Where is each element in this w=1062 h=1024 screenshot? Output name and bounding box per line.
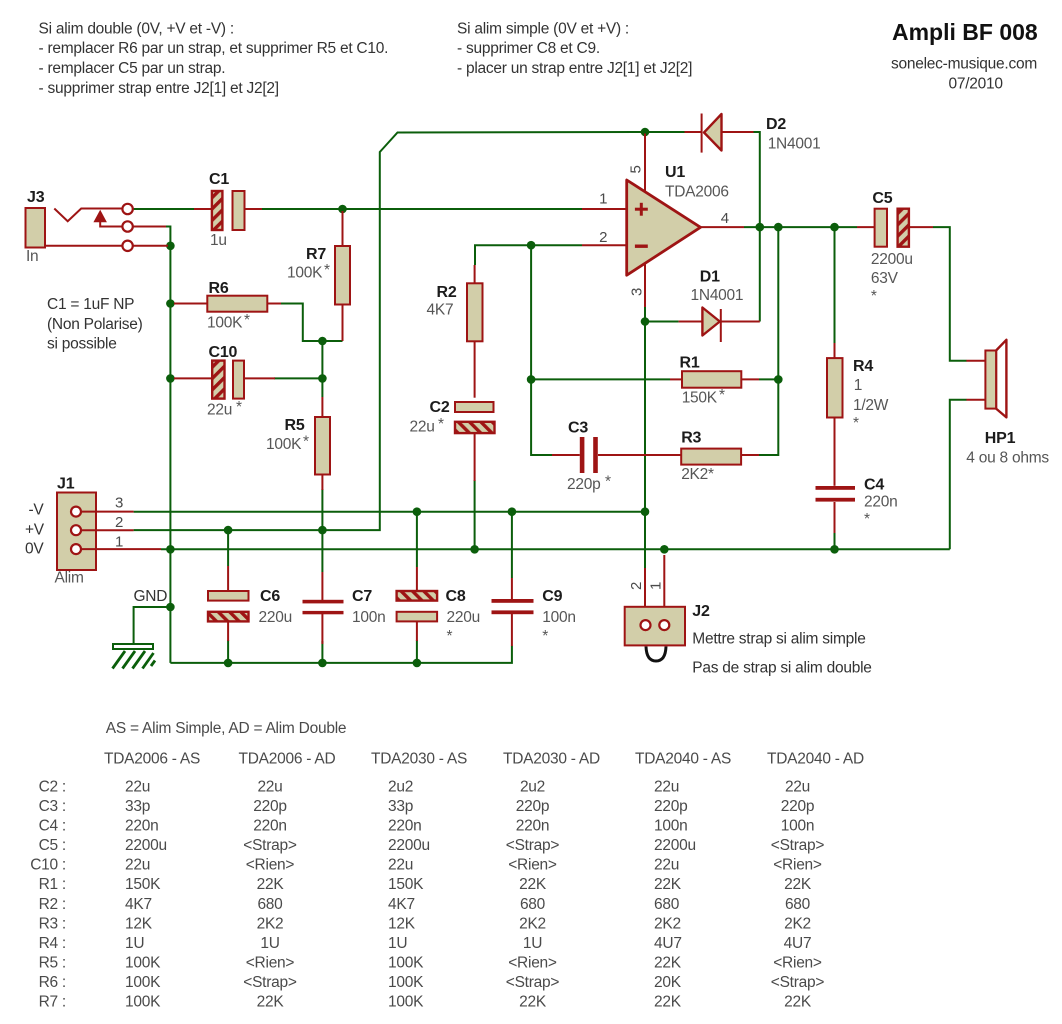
- svg-text:100n: 100n: [654, 818, 687, 835]
- capacitor C10: [174, 344, 275, 419]
- svg-text:22u: 22u: [410, 419, 435, 436]
- svg-text:(Non Polarise): (Non Polarise): [47, 316, 143, 333]
- resistor R7: [287, 211, 350, 341]
- svg-text:HP1: HP1: [985, 430, 1016, 447]
- svg-text:4 ou 8 ohms: 4 ou 8 ohms: [966, 450, 1049, 467]
- svg-text:1U: 1U: [523, 935, 542, 952]
- svg-text:R5: R5: [285, 417, 305, 434]
- svg-text:3: 3: [115, 495, 123, 512]
- svg-text:R4 :: R4 :: [39, 935, 66, 952]
- svg-text:150K: 150K: [388, 876, 424, 893]
- svg-text:<Rien>: <Rien>: [508, 857, 557, 874]
- svg-text:1U: 1U: [125, 935, 144, 952]
- svg-text:<Strap>: <Strap>: [771, 837, 825, 854]
- svg-text:680: 680: [520, 896, 546, 913]
- svg-text:Si alim double (0V, +V et -V): Si alim double (0V, +V et -V) :: [39, 20, 234, 37]
- svg-text:<Strap>: <Strap>: [506, 974, 560, 991]
- resistor R2: [427, 265, 483, 398]
- svg-text:2: 2: [628, 582, 645, 590]
- svg-text:*: *: [244, 312, 250, 329]
- resistor R4: [827, 343, 889, 460]
- svg-text:63V: 63V: [871, 270, 899, 287]
- svg-text:Mettre strap si alim simple: Mettre strap si alim simple: [692, 631, 865, 648]
- resistor R5: [266, 397, 330, 490]
- speaker HP1: [966, 340, 1049, 467]
- svg-text:Alim: Alim: [55, 570, 84, 587]
- svg-text:TDA2040 - AD: TDA2040 - AD: [767, 751, 864, 768]
- svg-text:33p: 33p: [125, 798, 150, 815]
- svg-text:<Rien>: <Rien>: [773, 857, 822, 874]
- svg-text:07/2010: 07/2010: [949, 76, 1004, 93]
- svg-text:TDA2030 - AD: TDA2030 - AD: [503, 751, 600, 768]
- svg-text:1u: 1u: [210, 232, 227, 249]
- wire: R4 to C4: [834, 418, 836, 486]
- svg-text:2200u: 2200u: [654, 837, 696, 854]
- svg-text:100K: 100K: [125, 974, 161, 991]
- wire: -V rail: [134, 511, 645, 513]
- svg-text:1: 1: [648, 582, 665, 590]
- wire: C7 vertical top: [321, 530, 323, 572]
- svg-text:3: 3: [629, 288, 646, 296]
- svg-text:<Rien>: <Rien>: [508, 955, 557, 972]
- wire: D2 cathode corner down to D1: [753, 132, 760, 322]
- svg-text:680: 680: [785, 896, 811, 913]
- wire: R7 bottom vertical to C10 node: [321, 341, 323, 397]
- svg-text:C10: C10: [209, 344, 238, 361]
- svg-text:J3: J3: [27, 189, 45, 206]
- svg-text:GND: GND: [134, 588, 168, 605]
- svg-text:100K: 100K: [388, 994, 424, 1011]
- svg-text:R6: R6: [209, 280, 229, 297]
- svg-text:2K2: 2K2: [654, 915, 681, 932]
- svg-text:1U: 1U: [260, 935, 279, 952]
- svg-text:20K: 20K: [654, 974, 682, 991]
- connector J1: [55, 476, 162, 587]
- capacitor C8: [397, 567, 480, 645]
- svg-text:C7: C7: [352, 588, 372, 605]
- svg-text:22u: 22u: [654, 857, 679, 874]
- svg-text:2200u: 2200u: [871, 251, 913, 268]
- svg-text:4U7: 4U7: [784, 935, 812, 952]
- svg-text:22u: 22u: [125, 779, 150, 796]
- wire: ground bottom rail: [170, 646, 512, 663]
- capacitor C5: [857, 190, 933, 305]
- svg-text:2K2: 2K2: [784, 915, 811, 932]
- svg-text:5: 5: [628, 165, 645, 173]
- svg-text:22K: 22K: [654, 876, 682, 893]
- svg-text:<Strap>: <Strap>: [771, 974, 825, 991]
- wire: +V rail up to top rail: [134, 132, 645, 530]
- svg-text:*: *: [324, 262, 330, 279]
- svg-text:22u: 22u: [785, 779, 810, 796]
- diode D2: [685, 114, 821, 153]
- svg-text:*: *: [236, 399, 242, 416]
- svg-text:4K7: 4K7: [388, 896, 415, 913]
- svg-text:220n: 220n: [125, 818, 158, 835]
- svg-text:TDA2006: TDA2006: [665, 184, 729, 201]
- svg-text:22u: 22u: [654, 779, 679, 796]
- svg-text:100n: 100n: [542, 609, 575, 626]
- svg-text:C4 :: C4 :: [39, 818, 66, 835]
- wire: R5 bottom to +V rail: [321, 489, 323, 530]
- svg-text:- remplacer C5 par un strap.: - remplacer C5 par un strap.: [39, 60, 226, 77]
- svg-text:2: 2: [599, 229, 607, 246]
- svg-text:Ampli BF 008: Ampli BF 008: [892, 19, 1038, 45]
- svg-text:22u: 22u: [125, 857, 150, 874]
- svg-text:100n: 100n: [781, 818, 814, 835]
- svg-text:<Strap>: <Strap>: [243, 837, 297, 854]
- svg-text:sonelec-musique.com: sonelec-musique.com: [891, 56, 1037, 73]
- svg-text:2K2: 2K2: [519, 915, 546, 932]
- svg-text:220p: 220p: [516, 798, 549, 815]
- svg-text:4U7: 4U7: [654, 935, 682, 952]
- svg-text:C6: C6: [260, 588, 280, 605]
- capacitor C6: [208, 566, 292, 641]
- svg-text:R2: R2: [437, 284, 457, 301]
- wire: inverting node vertical: [531, 245, 552, 455]
- svg-text:2K2: 2K2: [257, 915, 284, 932]
- resistor R6: [174, 280, 281, 332]
- svg-text:TDA2006 - AS: TDA2006 - AS: [104, 751, 200, 768]
- svg-text:22u: 22u: [257, 779, 282, 796]
- svg-text:R4: R4: [853, 358, 873, 375]
- svg-text:C2: C2: [430, 399, 450, 416]
- connector J2: [625, 555, 872, 677]
- svg-text:C1 = 1uF NP: C1 = 1uF NP: [47, 296, 134, 313]
- svg-text:*: *: [871, 288, 877, 305]
- svg-text:22K: 22K: [519, 994, 547, 1011]
- svg-text:+V: +V: [25, 522, 45, 539]
- svg-text:22K: 22K: [257, 994, 285, 1011]
- wire: C8 vertical top: [416, 512, 418, 567]
- svg-text:220n: 220n: [253, 818, 286, 835]
- svg-text:22K: 22K: [654, 994, 682, 1011]
- wire: U1 pin2 net to R2 corner: [475, 245, 582, 265]
- svg-text:2u2: 2u2: [520, 779, 545, 796]
- svg-text:C1: C1: [209, 171, 229, 188]
- wire: 0V rail: [161, 548, 950, 550]
- svg-text:TDA2040 - AS: TDA2040 - AS: [635, 751, 731, 768]
- wire: U1 pin3 to D1 anode: [645, 306, 679, 322]
- capacitor C2: [410, 399, 495, 481]
- wire: C1 to U1 pin1 with R7 branch: [262, 208, 582, 210]
- svg-text:1: 1: [115, 533, 123, 550]
- svg-text:- placer un strap entre J2[1]: - placer un strap entre J2[1] et J2[2]: [457, 60, 692, 77]
- svg-text:22K: 22K: [519, 876, 547, 893]
- svg-text:<Strap>: <Strap>: [506, 837, 560, 854]
- wire: R6 right to R7 bottom corner: [280, 304, 343, 342]
- svg-text:150K: 150K: [682, 390, 718, 407]
- svg-text:2u2: 2u2: [388, 779, 413, 796]
- svg-text:*: *: [438, 416, 444, 433]
- wire: C10 right to node: [274, 377, 322, 379]
- svg-text:si possible: si possible: [47, 336, 117, 353]
- svg-text:*: *: [864, 511, 870, 528]
- wire: C9 vertical top: [511, 512, 513, 578]
- capacitor C9: [492, 578, 576, 646]
- svg-text:2K2*: 2K2*: [681, 466, 714, 483]
- svg-text:D1: D1: [700, 269, 720, 286]
- svg-text:220u: 220u: [447, 609, 480, 626]
- wire: R4 C4 branch vertical: [834, 227, 836, 343]
- svg-text:C8: C8: [446, 588, 466, 605]
- svg-text:220p: 220p: [253, 798, 286, 815]
- svg-text:- remplacer R6 par un strap, e: - remplacer R6 par un strap, et supprime…: [39, 40, 389, 57]
- svg-text:D2: D2: [766, 116, 786, 133]
- svg-text:100K: 100K: [388, 955, 424, 972]
- svg-text:22u: 22u: [207, 402, 232, 419]
- svg-text:22u: 22u: [388, 857, 413, 874]
- svg-text:2200u: 2200u: [125, 837, 167, 854]
- svg-text:4: 4: [721, 210, 729, 227]
- svg-text:Si alim simple (0V et +V) :: Si alim simple (0V et +V) :: [457, 20, 629, 37]
- svg-text:220n: 220n: [388, 818, 421, 835]
- svg-text:100K: 100K: [125, 994, 161, 1011]
- wire: C8 vertical bottom: [416, 640, 418, 663]
- svg-text:U1: U1: [665, 164, 685, 181]
- resistor R3: [598, 430, 759, 484]
- svg-text:33p: 33p: [388, 798, 413, 815]
- op-amp U1: [582, 134, 744, 308]
- resistor R1: [670, 355, 759, 407]
- svg-text:J2: J2: [692, 603, 710, 620]
- wire: output row pin4 to C5: [744, 226, 857, 228]
- wire: C6 vertical top: [227, 530, 229, 566]
- connector J3: [26, 189, 133, 265]
- wire stub: J3 sleeve: [133, 245, 168, 247]
- svg-text:220n: 220n: [864, 494, 897, 511]
- svg-text:*: *: [605, 474, 611, 491]
- ground: [113, 588, 168, 669]
- wire: C6 vertical bottom: [227, 640, 229, 663]
- svg-text:TDA2030 - AS: TDA2030 - AS: [371, 751, 467, 768]
- svg-text:R3: R3: [681, 430, 701, 447]
- svg-text:C9: C9: [542, 588, 562, 605]
- svg-text:2: 2: [115, 514, 123, 531]
- svg-text:C2 :: C2 :: [39, 779, 66, 796]
- svg-text:4K7: 4K7: [427, 302, 454, 319]
- svg-text:-V: -V: [29, 502, 45, 519]
- svg-text:R7: R7: [306, 246, 326, 263]
- svg-text:100K: 100K: [287, 265, 323, 282]
- wire: C2 bottom to 0V: [474, 480, 476, 549]
- svg-text:1/2W: 1/2W: [853, 397, 889, 414]
- svg-text:1: 1: [854, 377, 862, 394]
- svg-text:*: *: [303, 434, 309, 451]
- svg-text:<Rien>: <Rien>: [773, 955, 822, 972]
- svg-text:22K: 22K: [654, 955, 682, 972]
- svg-text:C3: C3: [568, 420, 588, 437]
- svg-text:R6 :: R6 :: [39, 974, 66, 991]
- svg-text:220u: 220u: [259, 609, 292, 626]
- svg-text:0V: 0V: [25, 541, 44, 558]
- svg-text:100K: 100K: [125, 955, 161, 972]
- wire: GND stub: [134, 607, 171, 645]
- svg-text:680: 680: [654, 896, 680, 913]
- svg-text:220p: 220p: [654, 798, 687, 815]
- svg-text:C10 :: C10 :: [30, 857, 66, 874]
- svg-text:In: In: [26, 248, 38, 265]
- svg-text:100K: 100K: [266, 436, 302, 453]
- svg-text:R7 :: R7 :: [39, 994, 66, 1011]
- wire stub: J3 ring: [133, 226, 166, 228]
- svg-text:R2 :: R2 :: [39, 896, 66, 913]
- svg-text:100n: 100n: [352, 609, 385, 626]
- svg-text:680: 680: [257, 896, 283, 913]
- svg-text:- supprimer C8 et C9.: - supprimer C8 et C9.: [457, 40, 600, 57]
- svg-text:<Rien>: <Rien>: [246, 857, 295, 874]
- svg-text:22K: 22K: [257, 876, 285, 893]
- wire: U1 pin3 down to J2 pin2: [644, 322, 646, 569]
- wire: J3 ring to long left vertical: [166, 227, 170, 663]
- svg-text:C3 :: C3 :: [39, 798, 66, 815]
- wire: HP1 bottom to 0V rail: [950, 400, 967, 550]
- svg-text:220p: 220p: [567, 476, 600, 493]
- svg-text:Pas de strap si alim double: Pas de strap si alim double: [692, 660, 871, 677]
- svg-text:<Strap>: <Strap>: [243, 974, 297, 991]
- svg-text:*: *: [542, 628, 548, 645]
- wire: R3 right corner up: [758, 227, 778, 455]
- svg-text:12K: 12K: [388, 915, 416, 932]
- svg-text:*: *: [853, 415, 859, 432]
- wire: C4 to 0V rail: [834, 532, 836, 549]
- svg-text:C4: C4: [864, 477, 884, 494]
- svg-text:C5: C5: [872, 190, 892, 207]
- svg-text:J1: J1: [57, 476, 75, 493]
- svg-text:1N4001: 1N4001: [768, 136, 821, 153]
- svg-text:150K: 150K: [125, 876, 161, 893]
- svg-text:1N4001: 1N4001: [691, 287, 744, 304]
- svg-text:- supprimer strap entre J2[1]: - supprimer strap entre J2[1] et J2[2]: [39, 80, 279, 97]
- svg-text:220p: 220p: [781, 798, 814, 815]
- svg-text:100K: 100K: [207, 315, 243, 332]
- wire: C3 to R3 row: [663, 454, 681, 456]
- capacitor C1: [194, 171, 262, 249]
- svg-text:220n: 220n: [516, 818, 549, 835]
- wire: C5 to HP1 top: [933, 227, 967, 361]
- capacitor C4: [816, 460, 898, 533]
- wire: R1 row: [531, 378, 670, 380]
- svg-text:100K: 100K: [388, 974, 424, 991]
- svg-text:R3 :: R3 :: [39, 915, 66, 932]
- wire: R6 net from left vertical: [174, 303, 190, 305]
- svg-text:R1 :: R1 :: [39, 876, 66, 893]
- svg-text:TDA2006 - AD: TDA2006 - AD: [239, 751, 336, 768]
- svg-text:*: *: [719, 387, 725, 404]
- capacitor C7: [303, 572, 386, 644]
- svg-text:22K: 22K: [784, 876, 812, 893]
- svg-text:22K: 22K: [784, 994, 812, 1011]
- svg-text:R5 :: R5 :: [39, 955, 66, 972]
- svg-text:R1: R1: [680, 355, 700, 372]
- table: component values: [30, 720, 864, 1011]
- wire: C7 vertical bottom: [321, 641, 323, 663]
- svg-text:C5 :: C5 :: [39, 837, 66, 854]
- diode D1: [679, 269, 760, 343]
- wire: top rail dot to D2: [645, 131, 685, 133]
- svg-text:<Rien>: <Rien>: [246, 955, 295, 972]
- svg-text:AS = Alim Simple, AD = Alim Do: AS = Alim Simple, AD = Alim Double: [106, 720, 346, 737]
- svg-text:1U: 1U: [388, 935, 407, 952]
- capacitor C3: [552, 420, 663, 494]
- svg-text:1: 1: [599, 191, 607, 208]
- svg-text:2200u: 2200u: [388, 837, 430, 854]
- svg-text:*: *: [447, 628, 453, 645]
- wire: input jack to C1: [133, 208, 194, 210]
- svg-text:12K: 12K: [125, 915, 153, 932]
- svg-text:4K7: 4K7: [125, 896, 152, 913]
